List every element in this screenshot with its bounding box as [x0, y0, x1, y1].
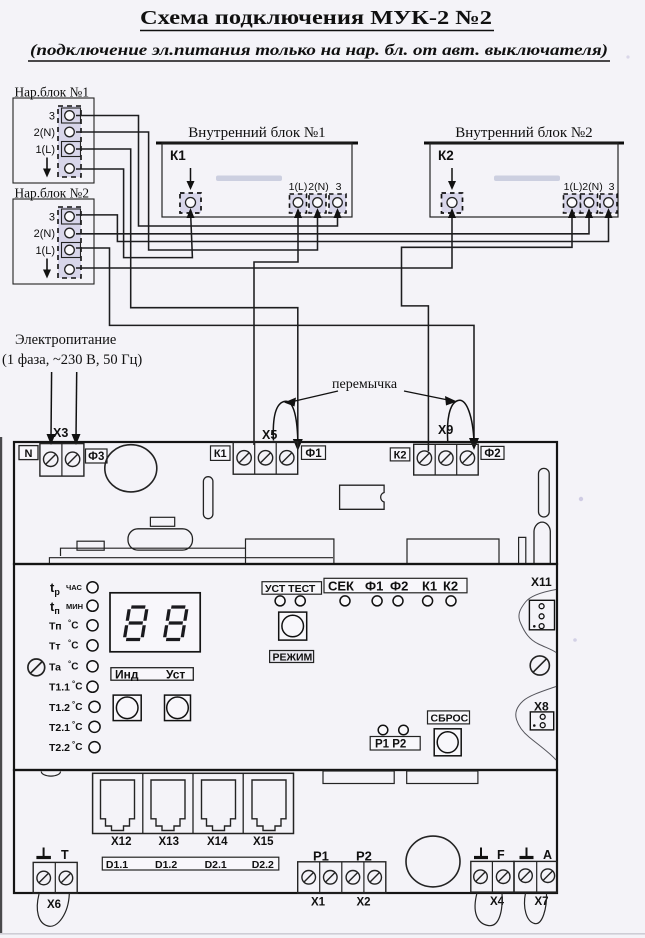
label box УСТ ТЕСТ: [262, 582, 322, 595]
sensor loop at X6: [37, 894, 69, 926]
7-segment display: [110, 593, 200, 652]
svg-text:ЧАС: ЧАС: [66, 583, 82, 592]
svg-text:Х5: Х5: [262, 428, 277, 442]
svg-text:(1 фаза, ~230 В, 50 Гц): (1 фаза, ~230 В, 50 Гц): [2, 352, 142, 368]
jack X13: [151, 780, 185, 831]
button РЕЖИМ: [279, 612, 307, 640]
ground arrow inside Нар.блок №1: [46, 158, 48, 175]
component: relay (horizontal pill): [128, 529, 193, 550]
component: small rect: [150, 517, 174, 526]
scan edge artifact left: [0, 437, 2, 933]
pointer to right jumper: [404, 391, 448, 400]
svg-text:Ф1: Ф1: [305, 448, 322, 460]
svg-text:Х9: Х9: [438, 423, 453, 437]
terminal strip (dashed) of Нар.блок №1: [58, 106, 81, 177]
svg-text:РЕЖИМ: РЕЖИМ: [273, 652, 313, 664]
component: rect A on band bottom: [246, 539, 334, 563]
svg-text:X12: X12: [111, 836, 131, 848]
svg-text:D2.2: D2.2: [252, 859, 274, 871]
label box СЕК Ф1 Ф2 К1 К2: [324, 578, 467, 593]
wire: Нар.блок №2 «3» → Внутренний блок №2 «3»: [76, 210, 609, 242]
label РЕЖИМ: [270, 651, 314, 663]
svg-text:Тп: Тп: [49, 620, 62, 632]
svg-text:СБРОС: СБРОС: [431, 713, 469, 725]
button СБРОС: [434, 729, 461, 756]
component: footprint rect 1: [323, 771, 394, 784]
svg-text:1(L): 1(L): [289, 181, 308, 193]
ground arrow inside Нар.блок №2: [46, 259, 48, 276]
label Ф3: [86, 449, 108, 463]
svg-text:1(L): 1(L): [35, 245, 55, 257]
svg-text:Х1: Х1: [311, 897, 326, 909]
terminal X7: [514, 861, 557, 892]
component: rect B on band bottom: [407, 539, 499, 563]
svg-text:1(L): 1(L): [564, 181, 583, 193]
svg-text:2(N): 2(N): [34, 127, 55, 139]
svg-text:Х2: Х2: [357, 897, 371, 909]
scan smudge: [216, 176, 282, 182]
svg-text:К1: К1: [170, 148, 186, 163]
component: footprint rect 2: [407, 771, 478, 784]
terminal 2(N) of Нар.блок №1: [65, 127, 75, 137]
wire: X5 (К1) → Внутренний блок №1 «1(L)»: [254, 210, 298, 445]
component: long connector strip: [61, 548, 246, 556]
svg-text:1(L): 1(L): [35, 144, 55, 156]
svg-text:МИН: МИН: [66, 602, 83, 611]
svg-text:Т1.2: Т1.2: [49, 702, 70, 714]
component: buzzer (big circle): [406, 836, 460, 887]
panel screw right: [530, 656, 549, 675]
ground symbol at X4: [480, 848, 482, 857]
wire: Нар.блок №2 «1(L)» → клемма Ф2 платы: [76, 248, 474, 443]
connector block X12-X15: [93, 773, 294, 833]
wire: Нар.блок №1 «1(L)» → клемма Ф1 платы: [76, 149, 298, 444]
svg-text:Р1 Р2: Р1 Р2: [375, 739, 406, 751]
controller board: middle band (panel): [14, 564, 557, 770]
svg-text:Та: Та: [49, 661, 61, 673]
7-seg digit 2: [164, 607, 187, 640]
wire: питание фаза → X3: [50, 372, 53, 438]
svg-text:F: F: [497, 848, 505, 862]
svg-text:К2: К2: [443, 579, 458, 594]
board cutout wavy outline (X8): [516, 687, 556, 761]
terminal comm of Нар.блок №2: [65, 265, 75, 275]
ground symbol at X6: [43, 848, 45, 857]
svg-text:2(N): 2(N): [308, 181, 328, 193]
svg-text:Х11: Х11: [531, 575, 552, 589]
jumper wire at X9 (перемычка): [447, 400, 474, 442]
LEDs СЕК Ф1 Ф2 К1 К2: [340, 596, 350, 606]
svg-text:D1.1: D1.1: [106, 859, 128, 871]
svg-text:3: 3: [609, 181, 615, 193]
wire: Нар.блок №2 «2(N)» → Внутренний блок №2 «2(N)»: [76, 210, 589, 234]
svg-text:Внутренний блок №1: Внутренний блок №1: [188, 125, 325, 141]
svg-text:Ф3: Ф3: [88, 451, 104, 463]
wire: Нар.блок №2 comm → клемма К2 Внутреннего блока №2: [76, 210, 452, 268]
scan speck: [579, 497, 583, 501]
label Ф2: [481, 446, 504, 459]
component: capacitor (vertical pill): [203, 477, 213, 519]
terminal comm of Нар.блок №1: [65, 164, 75, 174]
tab on band divider: [41, 772, 60, 777]
svg-text:К2: К2: [394, 449, 407, 461]
component: small rect left: [77, 541, 104, 550]
terminal 3 of Нар.блок №1: [62, 108, 81, 123]
svg-text:3: 3: [336, 181, 342, 193]
terminal X9: [414, 444, 479, 475]
sensor loop at X4: [475, 893, 502, 926]
pointer to left jumper: [295, 391, 338, 401]
svg-text:2(N): 2(N): [34, 228, 55, 240]
svg-text:Т2.2: Т2.2: [49, 742, 70, 754]
component: inverted U: [534, 522, 550, 563]
svg-text:Схема подключения МУК-2 №2: Схема подключения МУК-2 №2: [140, 7, 492, 29]
terminal 1(L) of Нар.блок №2: [62, 243, 81, 258]
component: transformer (big circle): [105, 445, 157, 492]
svg-text:Внутренний блок №2: Внутренний блок №2: [455, 125, 592, 141]
panel screw left: [28, 659, 45, 676]
label К2: [390, 448, 410, 461]
label box Р1 Р2: [370, 737, 420, 751]
terminal 3 of Нар.блок №2: [62, 209, 81, 224]
terminal 2(N) of Нар.блок №2: [65, 228, 75, 238]
wire: Нар.блок №1 «2(N)» → Внутренний блок №1 «2(N)»: [76, 132, 318, 250]
svg-text:К2: К2: [438, 148, 454, 163]
svg-text:X14: X14: [207, 836, 228, 848]
sensor loop at X7: [525, 893, 547, 924]
svg-text:Инд: Инд: [115, 667, 139, 681]
ground symbol at X7: [526, 848, 528, 857]
wire: X9 (К2) → Внутренний блок №2 «1(L)»: [402, 210, 573, 451]
svg-text:СЕК: СЕК: [328, 579, 354, 594]
jack X12: [101, 780, 135, 831]
К1 relay terminal (dashed): [180, 193, 201, 213]
scan smudge: [494, 176, 560, 182]
component: IC U1 (with notch): [340, 485, 385, 509]
svg-text:Т2.1: Т2.1: [49, 722, 70, 734]
svg-text:N: N: [25, 448, 33, 460]
label СБРОС: [428, 711, 470, 724]
LEDs УСТ ТЕСТ: [275, 596, 285, 606]
button Уст: [165, 695, 191, 721]
component: capacitor (vertical pill right): [539, 468, 550, 517]
svg-text:X15: X15: [253, 836, 274, 848]
terminal X1 X2: [298, 862, 386, 893]
terminal X4: [471, 861, 514, 892]
buttons label box Инд / Уст: [111, 668, 193, 681]
К2 relay terminal (dashed): [442, 193, 463, 213]
svg-text:(подключение эл.питания только: (подключение эл.питания только на нар. б…: [30, 42, 608, 59]
jack X14: [202, 780, 236, 831]
label box D1.1 D1.2 D2.1 D2.2: [102, 857, 278, 870]
terminal strip (dashed) of Нар.блок №2: [58, 207, 81, 278]
controller board: upper band: [14, 442, 557, 564]
terminal X6: [33, 862, 77, 893]
svg-text:2(N): 2(N): [582, 181, 602, 193]
wire: Нар.блок №1 comm → клемма К1 Внутреннего блока №1: [76, 169, 192, 258]
svg-text:К1: К1: [422, 579, 437, 594]
svg-text:Т1.1: Т1.1: [49, 682, 70, 694]
LEDs Р1 Р2: [378, 725, 388, 735]
svg-text:УСТ ТЕСТ: УСТ ТЕСТ: [265, 583, 316, 595]
terminal X5: [233, 442, 298, 474]
svg-text:Х3: Х3: [53, 426, 68, 440]
terminal 1(L) of Нар.блок №1: [62, 142, 81, 157]
svg-text:Электропитание: Электропитание: [15, 332, 116, 348]
board cutout wavy outline (X11): [519, 590, 556, 653]
arrow to К2 relay terminal: [451, 168, 453, 186]
svg-text:3: 3: [49, 212, 55, 224]
svg-text:Тт: Тт: [49, 640, 61, 652]
svg-text:D2.1: D2.1: [205, 859, 227, 871]
jumper wire at X5 (перемычка): [273, 401, 298, 440]
svg-text:Ф1: Ф1: [365, 579, 383, 594]
controller board: bottom band: [14, 770, 557, 893]
button Инд: [113, 695, 141, 721]
svg-text:Уст: Уст: [166, 667, 185, 681]
label К1: [211, 446, 231, 461]
svg-text:К1: К1: [214, 448, 227, 460]
jack X15: [252, 780, 286, 831]
svg-text:D1.2: D1.2: [155, 859, 177, 871]
component: small square on band bottom: [519, 537, 526, 563]
svg-text:перемычка: перемычка: [332, 377, 398, 392]
svg-text:Ф2: Ф2: [390, 579, 408, 594]
label Ф1: [302, 446, 326, 460]
svg-text:X13: X13: [159, 836, 179, 848]
svg-text:3: 3: [49, 111, 55, 123]
svg-text:А: А: [543, 848, 552, 862]
wire: питание нейтраль → X3: [75, 372, 78, 438]
arrow to К1 relay terminal: [190, 168, 192, 186]
svg-text:Ф2: Ф2: [484, 448, 500, 460]
svg-text:Т: Т: [61, 848, 69, 862]
7-seg digit 1: [124, 607, 147, 640]
wire: Нар.блок №1 «3» → Внутренний блок №1 «3»: [76, 116, 338, 227]
svg-text:Х6: Х6: [47, 899, 61, 911]
